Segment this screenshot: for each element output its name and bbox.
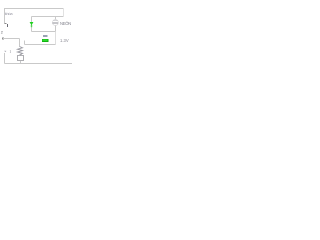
wire second horizontal: [32, 16, 64, 18]
component box (bell): [18, 56, 24, 61]
wire right vertical joining top lines: [63, 9, 65, 17]
wire box bottom lead: [20, 61, 22, 64]
svg-text:khóa: khóa: [5, 11, 14, 16]
wire bottom horizontal: [5, 63, 73, 65]
capacitor bottom plate green: [42, 39, 49, 42]
wire resistor top lead: [19, 39, 21, 47]
node terminal dot: [2, 38, 4, 40]
svg-text:NEÔN: NEÔN: [60, 21, 71, 26]
switch contact foot: [5, 23, 7, 25]
neon electrode top: [53, 20, 57, 22]
pin 1 label: [7, 24, 8, 27]
wire left vertical: [4, 8, 6, 24]
current arrow green: [30, 22, 34, 27]
wire middle horizontal: [32, 31, 56, 33]
svg-text:ɪ̣: ɪ̣: [10, 50, 12, 54]
capacitor top plate gray: [43, 35, 48, 37]
wire voltmeter horizontal: [25, 44, 56, 46]
neon lamp NE circle: [52, 20, 58, 26]
resistor R zigzag: [18, 47, 23, 55]
wire top horizontal: [4, 8, 64, 10]
svg-text:2: 2: [1, 29, 3, 34]
wire middle vertical: [31, 17, 33, 32]
svg-text:1.3V: 1.3V: [60, 38, 69, 43]
neon lamp bottom lead: [55, 26, 57, 32]
wire resistor bottom lead: [20, 55, 22, 56]
neon electrode bottom: [53, 22, 59, 24]
neon lamp top lead: [55, 17, 57, 21]
wire stub vertical: [24, 41, 26, 45]
wire lower-left horizontal: [3, 38, 20, 40]
wire left lower vertical: [4, 53, 6, 64]
wire right mid vertical: [55, 32, 57, 45]
